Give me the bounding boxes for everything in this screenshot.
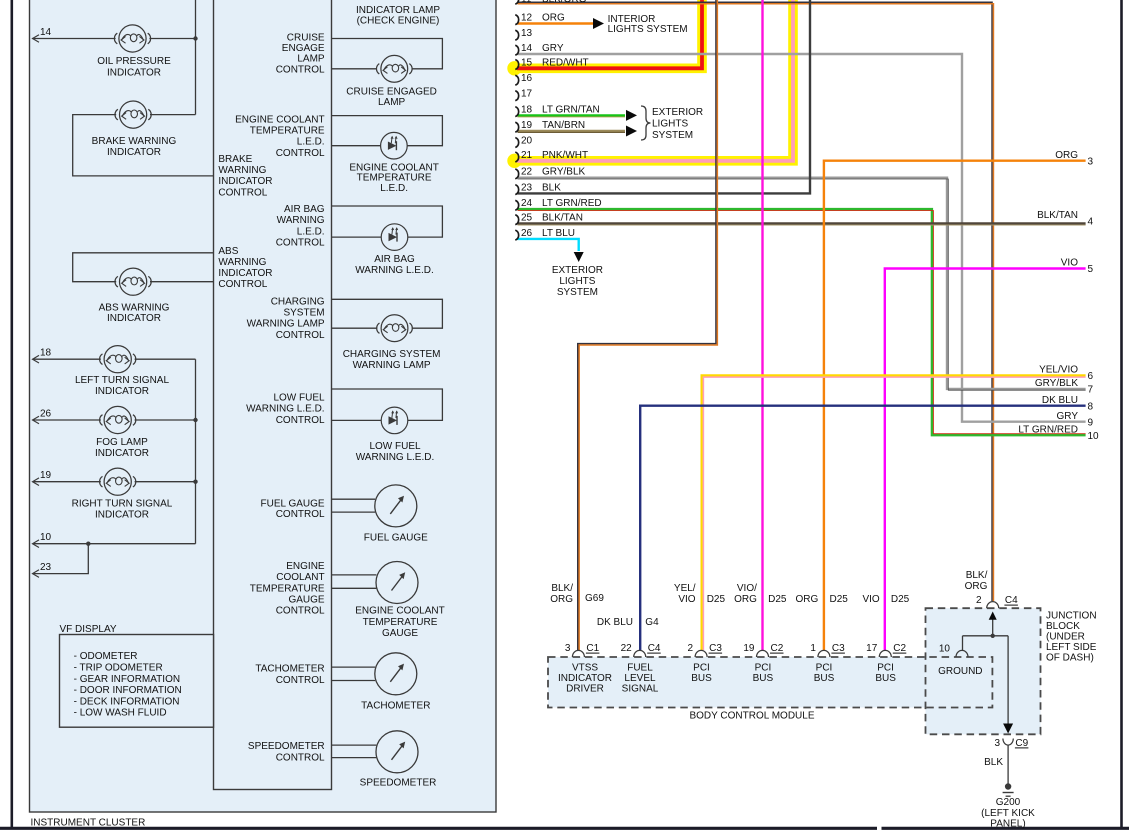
svg-text:OF DASH): OF DASH): [1046, 653, 1094, 664]
wire: ABS lamp right to control box: [150, 281, 214, 283]
svg-text:C9: C9: [1015, 738, 1028, 749]
svg-text:C3: C3: [709, 643, 722, 654]
svg-text:DK BLU: DK BLU: [597, 617, 633, 628]
svg-text:WARNING: WARNING: [218, 257, 266, 268]
BCM pin 3 connector C1: [572, 650, 584, 657]
svg-text:17: 17: [521, 89, 533, 100]
ground G200 symbol: [1005, 783, 1011, 789]
svg-text:CONTROL: CONTROL: [276, 415, 325, 426]
svg-text:18: 18: [40, 348, 52, 359]
svg-text:L.E.D.: L.E.D.: [297, 226, 325, 237]
wire: air bag led loop: [332, 206, 443, 237]
svg-text:COOLANT: COOLANT: [276, 572, 324, 583]
svg-text:LAMP: LAMP: [378, 97, 406, 108]
bottom page border (left part): [0, 827, 877, 830]
svg-text:BUS: BUS: [814, 673, 835, 684]
svg-text:5: 5: [1088, 264, 1094, 275]
speedometer: [376, 731, 418, 773]
svg-text:3: 3: [565, 643, 571, 654]
svg-text:ENGAGE: ENGAGE: [282, 43, 325, 54]
svg-text:- TRIP ODOMETER: - TRIP ODOMETER: [74, 663, 163, 674]
svg-text:LT GRN/RED: LT GRN/RED: [542, 198, 602, 209]
svg-text:LAMP: LAMP: [297, 54, 325, 65]
svg-text:L.E.D.: L.E.D.: [297, 137, 325, 148]
wire 14 GRY routed to pin 9: [518, 54, 1086, 422]
svg-text:BLK/ORG: BLK/ORG: [542, 0, 587, 5]
svg-text:INDICATOR: INDICATOR: [95, 510, 149, 521]
charging system warning lamp: [381, 315, 408, 342]
svg-text:2: 2: [976, 595, 982, 606]
svg-text:LEFT TURN SIGNAL: LEFT TURN SIGNAL: [75, 375, 170, 386]
svg-text:22: 22: [521, 167, 533, 178]
wires: control box to speedometer: [332, 744, 377, 746]
wire: ABS loop top to control box: [73, 253, 214, 282]
svg-text:YEL/: YEL/: [674, 583, 696, 594]
svg-text:LOW FUEL: LOW FUEL: [369, 441, 421, 452]
svg-text:23: 23: [521, 182, 533, 193]
svg-text:WARNING L.E.D.: WARNING L.E.D.: [246, 404, 325, 415]
connector pin 17: [515, 91, 518, 101]
svg-text:14: 14: [521, 43, 533, 54]
indicator control box: [214, 0, 332, 790]
wire: control box to air bag led: [332, 236, 382, 238]
wire 15 RED/WHT core: [517, 0, 702, 68]
wire 23 BLK routed up: [518, 0, 811, 193]
wire: cruise lamp loop: [332, 39, 443, 69]
wire: junction block down to C9: [1007, 636, 1009, 731]
svg-text:C2: C2: [771, 643, 784, 654]
body control module box fill: [548, 657, 992, 708]
wire: control box to cruise lamp: [332, 68, 378, 70]
svg-text:10: 10: [40, 532, 52, 543]
wire 21 PNK/WHT core: [517, 0, 793, 161]
svg-text:GAUGE: GAUGE: [288, 595, 324, 606]
svg-text:BODY CONTROL MODULE: BODY CONTROL MODULE: [689, 711, 814, 722]
connector pin 20: [515, 138, 518, 148]
svg-text:VIO: VIO: [1061, 258, 1078, 269]
svg-text:CONTROL: CONTROL: [276, 753, 325, 764]
connector pin 25: [515, 215, 518, 225]
svg-text:PCI: PCI: [693, 663, 710, 674]
wires: control box to tachometer: [332, 666, 376, 668]
svg-text:9: 9: [1088, 417, 1094, 428]
svg-text:WARNING LAMP: WARNING LAMP: [353, 360, 431, 371]
svg-text:17: 17: [866, 643, 878, 654]
junction block box fill: [926, 608, 1041, 734]
BCM pin 2 connector C3: [695, 650, 707, 657]
svg-text:CRUISE ENGAGED: CRUISE ENGAGED: [346, 86, 437, 97]
fog lamp indicator lamp: [104, 406, 131, 433]
wires: control box to ECT gauge: [332, 574, 377, 576]
svg-text:BLK: BLK: [542, 182, 561, 193]
svg-text:LEFT SIDE: LEFT SIDE: [1046, 642, 1097, 653]
bottom page border (right part): [882, 827, 1129, 830]
svg-text:LT GRN/RED: LT GRN/RED: [1018, 424, 1078, 435]
BCM pin 1 connector C3: [818, 650, 830, 657]
svg-text:INDICATOR: INDICATOR: [218, 268, 272, 279]
wire: control box to ECT led: [332, 145, 381, 147]
svg-text:GAUGE: GAUGE: [382, 628, 418, 639]
svg-text:VIO/: VIO/: [737, 583, 757, 594]
svg-text:LIGHTS: LIGHTS: [559, 276, 595, 287]
svg-text:ENGINE COOLANT: ENGINE COOLANT: [235, 114, 324, 125]
svg-text:CONTROL: CONTROL: [276, 64, 325, 75]
svg-text:22: 22: [621, 643, 633, 654]
svg-text:TEMPERATURE: TEMPERATURE: [357, 173, 432, 184]
wire YEL/VIO pin 6 to BCM pin 2: [702, 375, 1086, 650]
svg-text:11: 11: [521, 0, 532, 5]
wire: branch down to pin 23: [33, 544, 89, 574]
svg-text:CRUISE: CRUISE: [287, 32, 325, 43]
svg-text:ABS: ABS: [218, 246, 238, 257]
wire BLK/ORG from top to BCM pin 3: [578, 0, 716, 650]
svg-text:7: 7: [1088, 385, 1094, 396]
svg-text:GRY: GRY: [542, 43, 564, 54]
svg-text:CONTROL: CONTROL: [276, 675, 325, 686]
svg-text:LIGHTS SYSTEM: LIGHTS SYSTEM: [608, 24, 688, 35]
svg-text:CONTROL: CONTROL: [276, 330, 325, 341]
junction node fog lamp row: [193, 418, 197, 422]
right turn signal indicator lamp: [104, 468, 131, 495]
wire BLK to ground G200: [1007, 746, 1009, 784]
svg-text:3: 3: [1088, 156, 1094, 167]
wire: fog lamp to bus: [135, 419, 196, 421]
svg-text:RED/WHT: RED/WHT: [542, 57, 589, 68]
connector pin 13: [515, 30, 518, 40]
svg-text:PCI: PCI: [877, 663, 894, 674]
svg-text:D25: D25: [707, 594, 726, 605]
svg-text:DRIVER: DRIVER: [566, 684, 604, 695]
svg-text:PCI: PCI: [816, 663, 833, 674]
svg-text:23: 23: [40, 562, 52, 573]
wire 21 PNK/WHT highlighted (yellow band): [507, 154, 521, 168]
svg-text:24: 24: [521, 198, 533, 209]
wire: pin 19 to right turn signal indicator: [33, 481, 101, 483]
svg-text:INSTRUMENT CLUSTER: INSTRUMENT CLUSTER: [31, 818, 146, 829]
brake warning indicator lamp: [120, 101, 147, 128]
air bag warning led: [381, 224, 408, 251]
connector pin 14: [515, 45, 518, 55]
wire 12 ORG to interior lights: [518, 22, 594, 24]
wire 24 LT GRN/RED routed to pin 10: [518, 209, 1086, 435]
instrument cluster box: [30, 0, 497, 812]
svg-text:GROUND: GROUND: [938, 666, 982, 677]
svg-text:CONTROL: CONTROL: [276, 148, 325, 159]
svg-text:G4: G4: [645, 617, 659, 628]
connector pin 15: [515, 60, 518, 70]
svg-text:18: 18: [521, 104, 533, 115]
svg-text:15: 15: [521, 57, 533, 68]
svg-text:BUS: BUS: [875, 673, 896, 684]
svg-text:ORG: ORG: [796, 594, 819, 605]
wire: charging lamp loop: [332, 299, 443, 328]
wire: junction block internal horizontal: [963, 635, 1009, 637]
ABS warning indicator lamp: [120, 268, 147, 295]
svg-text:INDICATOR: INDICATOR: [107, 313, 161, 324]
svg-text:INDICATOR: INDICATOR: [107, 147, 161, 158]
svg-text:D25: D25: [891, 594, 910, 605]
svg-text:ENGINE COOLANT: ENGINE COOLANT: [355, 606, 444, 617]
svg-text:C4: C4: [1005, 595, 1018, 606]
svg-text:LOW FUEL: LOW FUEL: [273, 392, 325, 403]
tachometer: [375, 653, 417, 695]
svg-text:BLK/: BLK/: [551, 583, 573, 594]
junction block pin 2 C4: [987, 602, 999, 609]
oil pressure indicator lamp: [119, 25, 146, 52]
svg-text:TACHOMETER: TACHOMETER: [255, 664, 324, 675]
svg-text:GRY/BLK: GRY/BLK: [1035, 378, 1078, 389]
svg-text:LIGHTS: LIGHTS: [652, 119, 688, 130]
connector pin 12: [515, 15, 518, 25]
connector pin 26: [515, 230, 518, 240]
svg-text:26: 26: [40, 409, 52, 420]
svg-text:INDICATOR: INDICATOR: [95, 386, 149, 397]
wire DK BLU pin 8 to BCM pin 22: [640, 406, 1085, 650]
svg-text:L.E.D.: L.E.D.: [380, 183, 408, 194]
svg-text:LT GRN/TAN: LT GRN/TAN: [542, 104, 600, 115]
junction block dashed border: [926, 608, 1041, 734]
svg-text:PANEL): PANEL): [990, 819, 1025, 830]
svg-text:TACHOMETER: TACHOMETER: [361, 701, 430, 712]
svg-text:1: 1: [810, 643, 816, 654]
svg-text:WARNING: WARNING: [218, 165, 266, 176]
svg-text:10: 10: [1088, 431, 1100, 442]
svg-text:SYSTEM: SYSTEM: [652, 130, 693, 141]
svg-text:LEVEL: LEVEL: [624, 673, 656, 684]
svg-text:SPEEDOMETER: SPEEDOMETER: [360, 778, 437, 789]
exterior lights system brace: [641, 106, 651, 140]
svg-text:CONTROL: CONTROL: [218, 187, 267, 198]
svg-text:ORG: ORG: [550, 594, 573, 605]
svg-text:14: 14: [40, 27, 52, 38]
svg-text:ABS WARNING: ABS WARNING: [99, 302, 170, 313]
svg-text:26: 26: [521, 228, 533, 239]
junction node right turn row: [193, 480, 197, 484]
left page border: [11, 0, 14, 829]
svg-text:TEMPERATURE: TEMPERATURE: [363, 617, 438, 628]
svg-text:2: 2: [688, 643, 694, 654]
svg-text:LT BLU: LT BLU: [542, 228, 575, 239]
svg-text:20: 20: [521, 135, 533, 146]
svg-text:INDICATOR: INDICATOR: [95, 448, 149, 459]
svg-text:RIGHT TURN SIGNAL: RIGHT TURN SIGNAL: [72, 499, 173, 510]
svg-text:6: 6: [1088, 371, 1094, 382]
svg-text:FOG LAMP: FOG LAMP: [96, 437, 148, 448]
wire: brake lamp loop to control box: [73, 115, 214, 176]
svg-text:TEMPERATURE: TEMPERATURE: [250, 126, 325, 137]
svg-text:BUS: BUS: [753, 673, 774, 684]
wire ORG pin 3 to BCM pin 1: [824, 161, 1086, 650]
svg-text:INDICATOR: INDICATOR: [107, 68, 161, 79]
low fuel warning led: [381, 407, 408, 434]
wire: pin 10 row: [33, 543, 196, 545]
svg-text:CHARGING SYSTEM: CHARGING SYSTEM: [343, 349, 441, 360]
svg-text:G200: G200: [996, 797, 1021, 808]
svg-text:19: 19: [743, 643, 755, 654]
wire: branch to ground pin 10: [962, 636, 964, 651]
svg-text:CONTROL: CONTROL: [276, 509, 325, 520]
left turn signal indicator lamp: [104, 346, 131, 373]
junction node at oil pressure row: [193, 36, 197, 40]
wire: low fuel led loop: [332, 389, 443, 420]
svg-text:EXTERIOR: EXTERIOR: [552, 265, 603, 276]
svg-text:13: 13: [521, 28, 533, 39]
BCM pin 22 connector C4: [634, 650, 646, 657]
svg-text:ENGINE: ENGINE: [286, 561, 325, 572]
svg-text:BLK/TAN: BLK/TAN: [542, 213, 583, 224]
svg-text:C2: C2: [893, 643, 906, 654]
svg-text:SPEEDOMETER: SPEEDOMETER: [248, 741, 325, 752]
svg-text:C1: C1: [586, 643, 599, 654]
connector pin 21: [515, 152, 518, 162]
fuel gauge: [375, 485, 417, 527]
wire VIO/ORG from top to BCM pin 19: [761, 0, 763, 650]
svg-text:TEMPERATURE: TEMPERATURE: [250, 583, 325, 594]
connector pin 23: [515, 185, 518, 195]
wire 15 RED/WHT highlighted (yellow band): [507, 61, 521, 75]
svg-text:(UNDER: (UNDER: [1046, 632, 1085, 643]
svg-text:CONTROL: CONTROL: [218, 279, 267, 290]
svg-text:DK BLU: DK BLU: [1042, 395, 1078, 406]
svg-text:ORG: ORG: [734, 594, 757, 605]
svg-text:C3: C3: [832, 643, 845, 654]
junction node pin10 row: [86, 542, 90, 546]
svg-text:12: 12: [521, 13, 533, 24]
wires: control box to fuel gauge: [332, 498, 376, 500]
svg-text:GRY/BLK: GRY/BLK: [542, 167, 585, 178]
svg-text:YEL/VIO: YEL/VIO: [1039, 365, 1078, 376]
svg-text:3: 3: [994, 738, 1000, 749]
svg-text:AIR BAG: AIR BAG: [284, 204, 325, 215]
svg-text:CONTROL: CONTROL: [276, 237, 325, 248]
svg-text:- DECK INFORMATION: - DECK INFORMATION: [74, 696, 180, 707]
svg-text:WARNING L.E.D.: WARNING L.E.D.: [355, 265, 434, 276]
svg-text:19: 19: [521, 120, 533, 131]
cruise engaged lamp: [381, 55, 408, 82]
connector pin 16: [515, 75, 518, 85]
svg-text:OIL PRESSURE: OIL PRESSURE: [97, 56, 171, 67]
wire: right vertical bus (turn signals): [195, 359, 197, 544]
svg-text:19: 19: [40, 470, 52, 481]
svg-text:AIR BAG: AIR BAG: [374, 254, 415, 265]
svg-text:10: 10: [939, 643, 951, 654]
VF display box: [60, 635, 214, 728]
wire: pin 18 to left turn signal indicator: [33, 358, 101, 360]
wire 19 TAN/BRN to exterior lights: [518, 130, 626, 132]
svg-text:G69: G69: [585, 593, 604, 604]
connector pin 19: [515, 122, 518, 132]
wire: vertical bus top-left: [195, 0, 197, 115]
svg-text:BLK: BLK: [984, 757, 1003, 768]
connector pin 18: [515, 107, 518, 117]
svg-text:- DOOR INFORMATION: - DOOR INFORMATION: [74, 685, 182, 696]
wire 26 LT BLU down arrow: [518, 239, 579, 251]
wire: junction block internal up arrow: [992, 614, 994, 636]
svg-text:EXTERIOR: EXTERIOR: [652, 107, 703, 118]
wire: control box to low fuel led: [332, 419, 382, 421]
wire 25 BLK/TAN to pin 4: [518, 222, 1086, 224]
wire: ECT led loop: [332, 116, 443, 146]
engine coolant temperature gauge: [376, 562, 418, 604]
ground pin 10 bump: [956, 650, 968, 657]
svg-text:21: 21: [521, 150, 533, 161]
svg-text:PNK/WHT: PNK/WHT: [542, 150, 588, 161]
wire: control box to charging lamp: [332, 327, 378, 329]
svg-text:ORG: ORG: [542, 13, 565, 24]
svg-text:FUEL GAUGE: FUEL GAUGE: [364, 532, 428, 543]
svg-text:BLK/: BLK/: [966, 570, 988, 581]
svg-text:WARNING: WARNING: [277, 215, 325, 226]
wire: oil pressure to junction: [149, 38, 195, 40]
svg-text:ORG: ORG: [965, 581, 988, 592]
svg-text:- GEAR INFORMATION: - GEAR INFORMATION: [74, 674, 180, 685]
svg-text:- LOW WASH FLUID: - LOW WASH FLUID: [74, 708, 167, 719]
wire: left turn lamp to right bus: [135, 358, 196, 360]
svg-text:BLOCK: BLOCK: [1046, 621, 1080, 632]
svg-text:- ODOMETER: - ODOMETER: [74, 651, 138, 662]
svg-text:WARNING L.E.D.: WARNING L.E.D.: [356, 452, 435, 463]
svg-text:CONTROL: CONTROL: [276, 606, 325, 617]
body control module dashed border: [548, 657, 992, 708]
svg-text:SIGNAL: SIGNAL: [622, 684, 659, 695]
svg-text:VIO: VIO: [862, 594, 879, 605]
svg-text:BRAKE: BRAKE: [218, 154, 252, 165]
BCM pin 17 connector C2: [879, 650, 891, 657]
svg-text:4: 4: [1088, 217, 1094, 228]
svg-text:(CHECK ENGINE): (CHECK ENGINE): [357, 15, 440, 26]
svg-text:D25: D25: [830, 594, 849, 605]
engine coolant temperature led: [381, 132, 408, 159]
svg-text:16: 16: [521, 73, 533, 84]
svg-text:BUS: BUS: [691, 673, 712, 684]
svg-text:BLK/TAN: BLK/TAN: [1037, 210, 1078, 221]
svg-text:8: 8: [1088, 401, 1094, 412]
wire 11 BLK/ORG to junction block: [518, 2, 993, 601]
svg-text:GRY: GRY: [1057, 411, 1079, 422]
svg-text:JUNCTION: JUNCTION: [1046, 611, 1097, 622]
wire: pin 14 to oil pressure indicator: [33, 38, 116, 40]
wire 18 LT GRN/TAN to exterior lights: [518, 114, 626, 116]
wire: pin 26 to fog lamp indicator: [33, 419, 101, 421]
svg-text:FUEL: FUEL: [627, 663, 653, 674]
svg-text:BRAKE WARNING: BRAKE WARNING: [92, 136, 177, 147]
svg-text:VTSS: VTSS: [572, 663, 598, 674]
junction block internal node: [991, 634, 995, 638]
svg-text:INDICATOR: INDICATOR: [558, 673, 612, 684]
wire: right turn lamp to bus: [135, 481, 196, 483]
junction block pin 3 C9 (bottom): [1003, 739, 1013, 746]
connector pin 11: [515, 0, 518, 4]
svg-text:TAN/BRN: TAN/BRN: [542, 120, 585, 131]
connector pin 24: [515, 200, 518, 210]
svg-text:VF DISPLAY: VF DISPLAY: [60, 624, 117, 635]
wire 22 GRY/BLK routed to pin 7: [518, 178, 1086, 389]
svg-text:C4: C4: [648, 643, 661, 654]
connector pin 22: [515, 169, 518, 179]
svg-text:(LEFT KICK: (LEFT KICK: [981, 808, 1035, 819]
right page border: [1120, 0, 1123, 828]
svg-text:VIO: VIO: [678, 594, 695, 605]
svg-text:WARNING LAMP: WARNING LAMP: [247, 319, 325, 330]
wire VIO pin 5 to BCM pin 17: [885, 269, 1086, 651]
svg-text:CHARGING: CHARGING: [271, 297, 325, 308]
wire: brake lamp right to bus: [150, 114, 196, 116]
svg-text:D25: D25: [768, 594, 787, 605]
BCM pin 19 connector C2: [757, 650, 769, 657]
svg-text:INDICATOR: INDICATOR: [218, 176, 272, 187]
svg-text:SYSTEM: SYSTEM: [557, 287, 598, 298]
svg-text:PCI: PCI: [755, 663, 772, 674]
